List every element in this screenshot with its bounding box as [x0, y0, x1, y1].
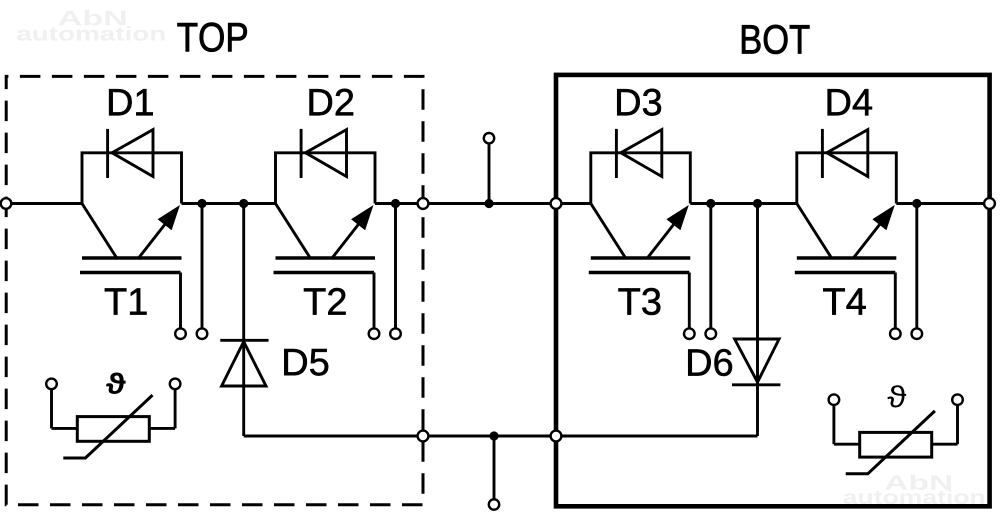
- label T3: [618, 288, 660, 315]
- transistor T2 (IGBT): [274, 153, 376, 273]
- transistor T1 (IGBT): [80, 153, 182, 273]
- junction T2 aux emitter: [391, 199, 400, 208]
- label D5: [284, 349, 328, 376]
- wire D5 column: [242, 204, 245, 437]
- BOT half-bridge module box: [556, 75, 990, 506]
- terminal BOT box left edge on main bus: [551, 198, 562, 209]
- wire T3 aux emitter lead: [709, 204, 712, 331]
- label D6: [688, 349, 732, 376]
- wire D6 column: [756, 204, 759, 437]
- terminal T3 gate: [684, 328, 695, 339]
- label T1: [105, 288, 147, 314]
- watermark AbN automation (top-left): [17, 10, 164, 41]
- terminal BOT box right edge on main bus: [984, 198, 995, 209]
- terminal T2 gate: [369, 328, 380, 339]
- label D1: [109, 89, 153, 115]
- junction D6 top: [753, 199, 762, 208]
- wire main bus: T2 to T3 through module boundary: [375, 202, 591, 205]
- terminal T3 aux emitter: [706, 328, 717, 339]
- label D4: [828, 89, 872, 115]
- transistor T4 (IGBT): [795, 153, 897, 273]
- terminal bottom middle: [489, 499, 499, 509]
- wire main bus: T1 to T2: [182, 202, 276, 205]
- label D2: [310, 89, 354, 116]
- wire top middle terminal lead: [488, 142, 491, 204]
- label thermistor BOT theta symbol: [887, 385, 906, 407]
- terminal BOT box left edge on bottom bus: [551, 431, 562, 442]
- junction T3 aux emitter: [706, 199, 715, 208]
- diode D6: [732, 339, 780, 385]
- terminal left (phase): [1, 198, 12, 209]
- diode D2: [301, 129, 346, 178]
- terminal thermistor TOP pin 1: [46, 379, 57, 390]
- junction bottom middle: [489, 431, 498, 440]
- terminal T4 aux emitter: [912, 328, 923, 339]
- transistor T3 (IGBT): [589, 153, 691, 273]
- watermark AbN automation (bottom-right): [843, 475, 984, 505]
- wire T4 aux emitter lead: [915, 204, 918, 331]
- label BOT: [742, 25, 809, 54]
- wire T2 gate lead: [373, 273, 376, 331]
- terminal T1 aux emitter: [197, 328, 208, 339]
- terminal T4 gate: [890, 328, 901, 339]
- junction D5 top: [239, 199, 248, 208]
- thermistor BOT: [834, 405, 958, 474]
- diode D5: [220, 340, 268, 386]
- terminal top middle: [484, 133, 494, 143]
- terminal thermistor TOP pin 2: [170, 379, 181, 390]
- TOP half-bridge module dashed box: [6, 76, 423, 504]
- diode D3: [616, 129, 661, 178]
- label TOP: [177, 23, 246, 52]
- diode D1: [108, 129, 153, 178]
- terminal TOP box right edge on main bus: [418, 198, 429, 209]
- junction T4 aux emitter: [912, 199, 921, 208]
- label T2: [304, 288, 346, 315]
- wire main bus: T3 to T4: [690, 202, 797, 205]
- terminal T1 gate: [175, 328, 186, 339]
- label D3: [617, 89, 661, 116]
- wire T1 gate lead: [179, 273, 182, 331]
- junction top middle: [484, 199, 493, 208]
- wire main bus: T4 to right edge: [896, 202, 989, 205]
- thermistor TOP: [52, 389, 176, 458]
- wire bottom middle terminal lead: [493, 436, 496, 500]
- wire bottom bus D5 to D6: [244, 435, 758, 438]
- wire T4 gate lead: [894, 273, 897, 331]
- junction T1 aux emitter: [197, 199, 206, 208]
- label thermistor TOP theta symbol: [106, 372, 125, 393]
- wire T3 gate lead: [688, 273, 691, 331]
- wire T1 aux emitter lead: [201, 204, 204, 331]
- wire T2 aux emitter lead: [394, 204, 397, 331]
- terminal TOP box right edge on bottom bus: [418, 431, 429, 442]
- terminal thermistor BOT pin 1: [829, 394, 840, 405]
- diode D4: [822, 129, 867, 178]
- terminal T2 aux emitter: [390, 328, 401, 339]
- wire main bus: left terminal to T1: [6, 202, 82, 205]
- label T4: [823, 288, 865, 314]
- terminal thermistor BOT pin 2: [952, 394, 963, 405]
